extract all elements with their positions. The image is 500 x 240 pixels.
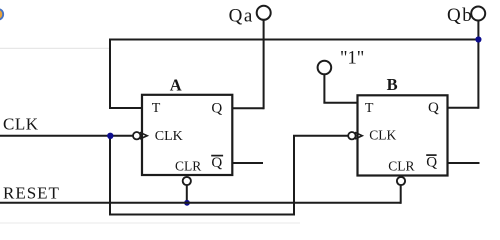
faint ruled line lower (0, 222, 300, 224)
svg-text:CLK: CLK (3, 115, 39, 134)
node RESET junction at A (184, 200, 190, 206)
terminal Qb (471, 7, 485, 21)
svg-text:CLR: CLR (388, 158, 414, 173)
svg-text:Q: Q (426, 155, 437, 171)
wire logic one stem vertical (323, 74, 325, 103)
wire Qb vertical riser (477, 20, 479, 109)
terminal logic one (318, 61, 332, 75)
wire RESET vertical up to CLR of B (400, 185, 402, 204)
wire CLR of A down to RESET (186, 185, 188, 203)
wire CLK input of B horizontal (293, 135, 348, 137)
svg-text:Qb: Qb (447, 5, 473, 26)
svg-text:B: B (387, 75, 398, 94)
overline of Q-bar of B (426, 154, 436, 156)
node CLK junction (107, 133, 113, 139)
svg-text:Q: Q (211, 155, 222, 171)
clock bubble of A (133, 132, 140, 139)
wire Q-bar stub of B (448, 162, 480, 164)
wire Qa vertical riser (263, 20, 265, 110)
node junction below Qb (475, 36, 481, 42)
wire T input of A (109, 107, 142, 109)
list bullet fragment at left edge (0, 9, 3, 19)
clear bubble of A (183, 177, 191, 185)
svg-text:CLR: CLR (175, 158, 201, 173)
wire feedback top horizontal from Qb node to left (109, 39, 478, 41)
flip-flop B body (358, 95, 448, 175)
terminal Qa (257, 6, 271, 20)
clock wedge of A (140, 132, 147, 139)
wire Q-bar stub of A (232, 162, 263, 164)
wire Q output of B (448, 107, 479, 109)
svg-text:Qa: Qa (229, 6, 254, 27)
svg-text:"1": "1" (340, 48, 364, 68)
clock wedge of B (355, 132, 362, 139)
svg-text:T: T (365, 101, 374, 116)
wire CLK input horizontal (0, 135, 133, 137)
svg-text:RESET: RESET (3, 184, 60, 203)
svg-text:Q: Q (211, 100, 222, 116)
svg-text:T: T (152, 101, 161, 116)
flip-flop A body (142, 95, 232, 175)
wire Q output of A (232, 107, 263, 109)
overline of Q-bar of A (211, 155, 223, 157)
wire CLK branch vertical up to B (293, 136, 295, 216)
svg-text:A: A (170, 75, 182, 94)
svg-text:CLK: CLK (155, 129, 183, 144)
wire CLK branch bottom horizontal (109, 214, 294, 216)
wire logic one to T of B (323, 102, 357, 104)
wire feedback left vertical down to T of A (109, 39, 111, 109)
faint ruled line upper (0, 47, 109, 49)
clear bubble of B (397, 177, 405, 185)
clock bubble of B (348, 132, 355, 139)
wire CLK branch vertical down (109, 136, 111, 215)
svg-text:CLK: CLK (369, 128, 396, 143)
wire RESET horizontal (0, 202, 401, 204)
svg-text:Q: Q (428, 100, 439, 116)
